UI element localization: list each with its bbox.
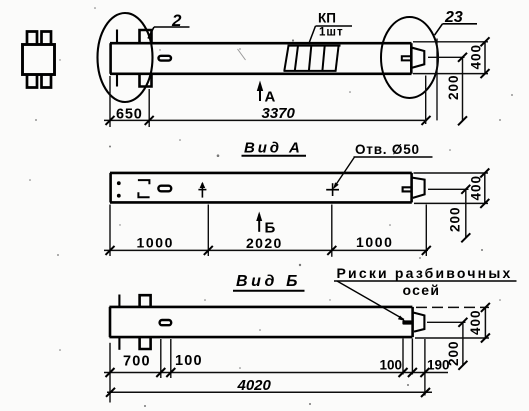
title Vid A bbox=[242, 140, 307, 157]
svg-text:КП: КП bbox=[318, 11, 336, 26]
view A right plug bbox=[412, 178, 424, 198]
view B left bottom tick bbox=[118, 338, 120, 350]
view A dimension line bbox=[104, 249, 428, 251]
view B dimension line 4020 bbox=[107, 391, 432, 393]
view B left bottom stub bbox=[140, 338, 151, 349]
view A beam outline bbox=[110, 173, 412, 203]
svg-text:2020: 2020 bbox=[246, 235, 283, 251]
view A right riska bar bbox=[403, 187, 412, 191]
svg-text:200: 200 bbox=[446, 74, 461, 100]
top dimension line 650 / 3370 bbox=[104, 119, 427, 121]
detail circle left end bbox=[98, 13, 153, 102]
view B right plug bbox=[414, 313, 425, 332]
svg-text:Б: Б bbox=[265, 220, 276, 237]
top view left bottom tick bbox=[116, 74, 118, 87]
cross-section symbol square bbox=[23, 45, 55, 75]
top view dim 200 bbox=[446, 53, 467, 126]
top view left top stub bbox=[140, 30, 152, 43]
top view embedded bar bbox=[159, 56, 172, 61]
cross-section bottom-right stub bbox=[42, 75, 52, 88]
dimension 650 extension lines bbox=[109, 76, 111, 127]
svg-text:1000: 1000 bbox=[137, 235, 175, 251]
svg-text:1шт: 1шт bbox=[319, 27, 344, 39]
top view dim 400 bbox=[469, 37, 490, 78]
label Otv O50 bbox=[333, 142, 433, 189]
label 23 bbox=[435, 9, 478, 35]
svg-text:200: 200 bbox=[448, 206, 463, 232]
view B riska bar right bbox=[402, 320, 412, 324]
top view right riska bar bbox=[402, 56, 411, 60]
svg-text:400: 400 bbox=[469, 175, 484, 201]
view A bracket bottom bbox=[138, 192, 149, 197]
view B 400 extensions bbox=[416, 306, 489, 308]
svg-text:осей: осей bbox=[403, 282, 441, 298]
view B beam outline bbox=[109, 307, 412, 337]
view B dimension line bbox=[104, 372, 448, 374]
view A 400 extensions bbox=[414, 172, 489, 174]
top view left bottom stub bbox=[140, 74, 152, 87]
section arrow B bbox=[256, 212, 275, 237]
label KP 1sht bbox=[309, 11, 353, 45]
svg-text:А: А bbox=[265, 89, 276, 106]
cross-section top-left stub bbox=[27, 32, 37, 45]
top view left top tick bbox=[116, 30, 118, 44]
svg-text:1000: 1000 bbox=[356, 234, 394, 250]
svg-text:Вид Б: Вид Б bbox=[236, 273, 301, 290]
top view right plug bbox=[412, 48, 424, 68]
view A embedded bar bbox=[158, 186, 171, 192]
view A dim 200 bbox=[448, 185, 471, 243]
view B left top stub bbox=[140, 295, 151, 306]
view A extension lines bbox=[109, 205, 111, 257]
label 2 bbox=[148, 11, 190, 39]
svg-text:Риски разбивочных: Риски разбивочных bbox=[337, 265, 513, 281]
view B center line bbox=[427, 321, 466, 323]
axis extension line bbox=[436, 39, 438, 121]
view A hole mark bbox=[326, 183, 339, 196]
view A dots bbox=[117, 181, 121, 185]
cross-section top-right stub bbox=[42, 32, 52, 45]
svg-text:200: 200 bbox=[446, 340, 461, 366]
view A dim 400 bbox=[469, 169, 490, 208]
view A anchor mark bbox=[198, 182, 206, 198]
title Vid B bbox=[233, 273, 305, 291]
view A bracket top bbox=[138, 180, 150, 184]
top view beam outline bbox=[110, 43, 412, 74]
view B dim 400 bbox=[468, 303, 490, 343]
scan scratch bbox=[238, 49, 246, 60]
label riski razbivochnykh osey bbox=[334, 265, 517, 321]
svg-text:100: 100 bbox=[380, 358, 403, 373]
svg-text:Вид А: Вид А bbox=[244, 140, 303, 157]
svg-text:3370: 3370 bbox=[262, 105, 296, 122]
top view center line bbox=[428, 56, 465, 58]
view B embedded bar bbox=[160, 320, 172, 325]
view B dim 200 bbox=[446, 318, 467, 370]
svg-text:400: 400 bbox=[469, 44, 484, 70]
KP plate bbox=[284, 46, 341, 71]
svg-text:100: 100 bbox=[175, 353, 203, 369]
view B left top tick bbox=[118, 295, 120, 307]
section arrow A bbox=[257, 81, 276, 106]
svg-text:650: 650 bbox=[116, 107, 143, 123]
top view 400 extension top bbox=[413, 41, 488, 43]
svg-text:4020: 4020 bbox=[237, 377, 272, 394]
detail circle right end bbox=[381, 17, 438, 98]
svg-text:400: 400 bbox=[468, 309, 483, 335]
svg-text:700: 700 bbox=[123, 354, 151, 370]
cross-section bottom-left stub bbox=[27, 75, 37, 88]
view B extension lines bbox=[109, 343, 111, 403]
view A center line bbox=[428, 188, 469, 190]
top view 400 extension bottom bbox=[413, 73, 488, 75]
svg-text:Отв. Ø50: Отв. Ø50 bbox=[355, 142, 420, 157]
right end extension down bbox=[425, 76, 427, 125]
